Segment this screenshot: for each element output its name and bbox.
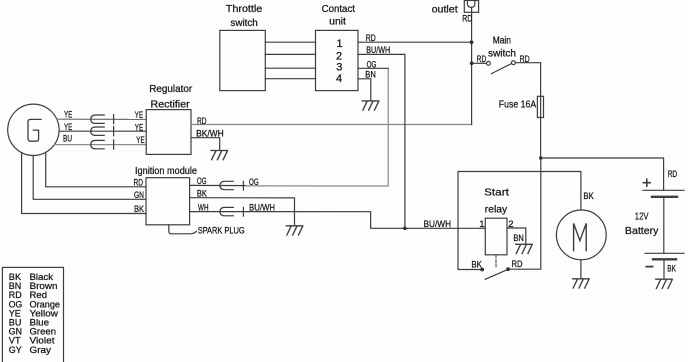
ground regulator — [211, 151, 227, 160]
svg-text:1: 1 — [479, 219, 484, 230]
node battery feed junction — [539, 156, 543, 160]
battery plus sign — [643, 179, 650, 186]
svg-text:RD: RD — [512, 259, 523, 269]
svg-text:Gray: Gray — [30, 345, 52, 355]
main switch right contact — [512, 61, 516, 65]
connector pin tick row1 — [113, 115, 115, 124]
wire regulator RD output — [191, 124, 472, 126]
generator G glyph — [28, 119, 41, 141]
connector fork row2 — [91, 127, 104, 135]
motor M glyph — [574, 223, 587, 250]
connector pin tick module WH — [242, 207, 244, 216]
wire motor supply loop — [458, 172, 581, 270]
ground contact BN — [362, 101, 378, 110]
wire contact OG output — [358, 67, 388, 69]
battery cell2 short plate — [653, 258, 676, 260]
wire OG to contact unit — [246, 68, 388, 186]
relay RD contact — [506, 267, 510, 271]
svg-text:RD: RD — [366, 33, 376, 43]
wire gen to module RD — [46, 152, 146, 186]
wire relay actuator — [495, 255, 497, 268]
svg-text:Rectifier: Rectifier — [151, 99, 191, 110]
svg-text:RD: RD — [477, 54, 487, 64]
outlet socket U — [467, 1, 475, 8]
svg-text:YE: YE — [64, 122, 72, 132]
connector pin tick module OG — [242, 181, 244, 190]
wire contact RD output — [358, 41, 472, 43]
battery minus sign — [646, 266, 652, 268]
svg-text:Contact: Contact — [322, 4, 356, 15]
throttle switch box — [220, 30, 265, 90]
node BU/WH junction — [403, 227, 407, 231]
motor M circle — [556, 210, 606, 260]
svg-text:OG: OG — [249, 177, 259, 187]
wire module BK to ground — [190, 198, 295, 226]
start relay coil — [485, 218, 507, 255]
relay BK contact — [480, 268, 484, 272]
battery cell1 long plate — [643, 189, 684, 191]
outlet symbol box — [464, 1, 478, 13]
wire battery middle — [663, 197, 665, 254]
svg-text:Start: Start — [484, 187, 509, 199]
wire regulator BK/WH to ground — [191, 138, 220, 151]
connector pin tick row3 — [113, 140, 115, 149]
svg-text:RD: RD — [134, 178, 144, 188]
svg-text:BK: BK — [197, 189, 207, 199]
wire outlet down — [471, 7, 473, 124]
svg-text:Battery: Battery — [625, 225, 659, 237]
svg-text:Ignition module: Ignition module — [135, 166, 197, 177]
connector fork module OG — [220, 181, 233, 189]
connector fork row1 — [91, 115, 104, 123]
wire gen phase 1 (YE) — [57, 118, 146, 120]
wire spark plug lead — [169, 225, 197, 234]
svg-text:YE: YE — [135, 122, 143, 132]
svg-text:BK: BK — [471, 260, 482, 270]
wire throttle-contact pin4 — [265, 78, 315, 80]
svg-text:switch: switch — [488, 49, 516, 60]
svg-text:BU/WH: BU/WH — [249, 202, 275, 212]
svg-text:RD: RD — [668, 169, 678, 179]
wire RD to battery — [541, 158, 664, 190]
svg-text:RD: RD — [520, 54, 530, 64]
node RD junction outlet — [470, 40, 474, 44]
svg-text:RD: RD — [462, 13, 472, 23]
svg-text:BK: BK — [667, 264, 676, 274]
wire gen phase 2 (YE) — [59, 130, 146, 132]
relay switch blade — [485, 270, 507, 280]
wire battery to ground — [663, 259, 665, 279]
wire relay pin2 to ground — [507, 228, 526, 244]
svg-text:Regulator: Regulator — [149, 84, 193, 95]
battery cell2 long plate — [645, 252, 684, 254]
svg-text:OG: OG — [367, 59, 377, 69]
wire gen phase 3 (BU) — [55, 144, 147, 146]
wire fuse down — [540, 96, 542, 158]
wire motor to ground — [580, 260, 582, 279]
wire main switch to fuse — [515, 63, 540, 97]
wire throttle-contact pin2 — [265, 53, 315, 55]
wire throttle-contact pin3 — [265, 67, 315, 69]
legend box — [2, 267, 63, 362]
svg-text:Throttle: Throttle — [226, 4, 263, 15]
svg-text:BU: BU — [63, 133, 72, 143]
svg-text:4: 4 — [336, 73, 342, 85]
svg-text:Main: Main — [493, 36, 511, 47]
svg-text:12V: 12V — [635, 211, 649, 223]
connector fork row3 — [91, 140, 104, 148]
svg-text:YE: YE — [136, 135, 144, 145]
svg-text:outlet: outlet — [432, 5, 458, 16]
svg-text:relay: relay — [485, 204, 508, 216]
connector pin tick row2 — [113, 127, 115, 136]
generator G1 circle — [8, 104, 59, 155]
wire throttle-contact pin1 — [265, 41, 315, 43]
ground module BK — [286, 226, 302, 235]
wire main switch stub left — [472, 62, 487, 64]
legend color code table — [9, 272, 60, 355]
main switch blade — [491, 64, 511, 74]
svg-text:Fuse 16A: Fuse 16A — [499, 99, 536, 111]
ignition module box — [146, 178, 190, 225]
svg-text:RD: RD — [197, 116, 207, 126]
svg-text:OG: OG — [197, 176, 207, 186]
fuse 16A body — [537, 96, 543, 117]
wire module WH / BU-WH — [190, 212, 486, 229]
svg-text:GN: GN — [134, 190, 144, 200]
svg-text:GY: GY — [9, 345, 22, 355]
battery cell1 short plate — [652, 196, 677, 198]
wire fuse to relay RD contact — [510, 158, 541, 269]
wire gen to module GN — [33, 156, 146, 200]
ground battery — [656, 279, 672, 288]
connector fork module WH — [220, 207, 233, 215]
svg-text:2: 2 — [508, 219, 513, 230]
svg-text:BN: BN — [513, 233, 523, 243]
contact unit box — [316, 30, 359, 90]
svg-text:SPARK PLUG: SPARK PLUG — [198, 226, 245, 236]
svg-text:unit: unit — [329, 16, 346, 27]
svg-text:YE: YE — [135, 110, 143, 120]
ground relay BN — [516, 244, 532, 253]
node main switch tap — [470, 61, 474, 65]
svg-text:1: 1 — [337, 38, 343, 50]
svg-text:BK: BK — [583, 191, 593, 201]
main switch left contact — [487, 61, 491, 65]
svg-text:BK: BK — [134, 204, 144, 214]
wire gen to module BK — [22, 153, 146, 214]
svg-text:YE: YE — [64, 110, 72, 120]
svg-text:BN: BN — [365, 70, 376, 80]
wire contact BN to ground — [358, 79, 371, 101]
svg-text:3: 3 — [336, 61, 342, 73]
regulator rectifier box — [146, 110, 191, 155]
svg-text:BU/WH: BU/WH — [424, 219, 452, 229]
ground motor — [573, 279, 589, 288]
svg-text:switch: switch — [230, 18, 257, 29]
wire contact BU/WH output — [358, 54, 405, 228]
svg-text:BK/WH: BK/WH — [196, 129, 224, 139]
wire module OG output — [190, 184, 246, 186]
svg-text:WH: WH — [198, 202, 209, 212]
svg-text:BU/WH: BU/WH — [366, 45, 390, 55]
